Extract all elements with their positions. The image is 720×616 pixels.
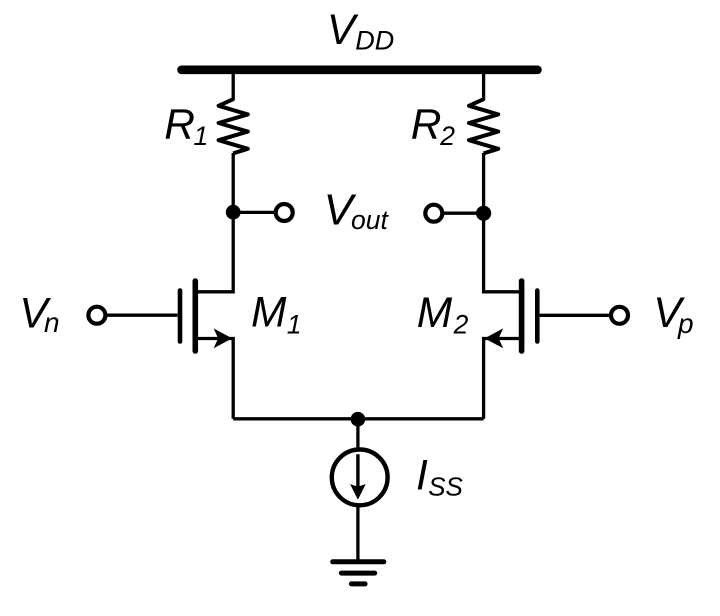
- transistor M2 gate bar: [535, 291, 540, 342]
- svg-text:p: p: [677, 308, 694, 339]
- wire ISS to ground: [356, 507, 359, 562]
- ground bar 1: [333, 559, 384, 564]
- wire left drain node to Vout left terminal: [233, 211, 276, 214]
- ground bar 3: [351, 581, 365, 586]
- node tail junction: [351, 412, 366, 427]
- svg-text:1: 1: [194, 121, 209, 151]
- svg-text:1: 1: [287, 309, 302, 339]
- svg-text:V: V: [327, 7, 359, 54]
- current source ISS arrow head: [350, 484, 366, 500]
- wire R1 to M1 drain: [197, 153, 233, 292]
- current source ISS circle: [332, 450, 388, 506]
- current source ISS arrow shaft: [356, 454, 359, 488]
- resistor R1: [219, 99, 248, 153]
- transistor M1 source arrow: [214, 328, 233, 348]
- transistor M2 source stub and wire to tail: [484, 339, 520, 419]
- node left drain junction: [226, 205, 241, 220]
- svg-text:R: R: [411, 101, 442, 148]
- ground bar 2: [341, 571, 374, 576]
- svg-text:R: R: [164, 101, 195, 148]
- svg-text:M: M: [251, 290, 287, 337]
- svg-text:I: I: [416, 453, 428, 500]
- svg-text:M: M: [417, 290, 453, 337]
- wire Vout right terminal to right drain node: [442, 212, 484, 215]
- svg-text:DD: DD: [355, 26, 394, 56]
- wire Vn terminal to M1 gate: [106, 314, 178, 317]
- transistor M1 channel bar: [193, 281, 199, 351]
- svg-text:n: n: [44, 307, 60, 338]
- svg-text:2: 2: [439, 121, 455, 151]
- wire R2 to M2 drain: [484, 153, 520, 292]
- svg-text:out: out: [351, 205, 389, 235]
- transistor M2 channel bar: [519, 281, 525, 351]
- terminal Vn: [88, 307, 105, 324]
- wire VDD rail to R1: [232, 70, 235, 101]
- resistor R2: [469, 99, 498, 153]
- terminal Vp: [611, 307, 628, 324]
- wire VDD rail to R2: [482, 70, 485, 101]
- wire M2 gate to Vp terminal: [540, 314, 611, 317]
- wire tail node to ISS: [356, 419, 359, 449]
- terminal Vout right: [425, 205, 442, 222]
- svg-text:SS: SS: [428, 471, 463, 501]
- VDD power rail: [182, 66, 538, 75]
- svg-text:2: 2: [453, 310, 469, 340]
- transistor M1 gate bar: [178, 291, 183, 342]
- terminal Vout left: [276, 204, 293, 221]
- transistor M2 source arrow: [485, 328, 504, 348]
- node right drain junction: [476, 206, 491, 221]
- wire common source bus: [233, 417, 483, 420]
- transistor M1 source stub and wire to tail: [197, 339, 233, 419]
